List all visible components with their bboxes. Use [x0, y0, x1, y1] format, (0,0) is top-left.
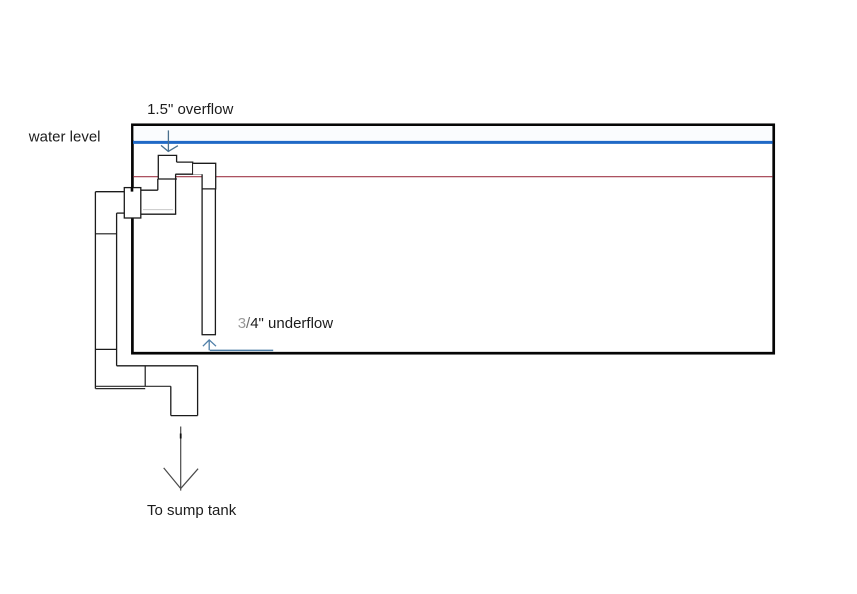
- svg-text:water level: water level: [28, 128, 101, 145]
- tank wall stub inside box: [131, 187, 134, 192]
- overflow intake pipe D1: [158, 155, 176, 179]
- pale tint above water line: [133, 126, 772, 141]
- seam lower: [95, 348, 116, 350]
- bottom long horizontal lower edge: [95, 385, 170, 387]
- horizontal junction line: [175, 173, 202, 175]
- left loop: top horizontal pipe edges: [95, 191, 124, 193]
- red line (middle segment): [176, 176, 202, 178]
- bulkhead union box: [124, 188, 141, 218]
- connector top edge: [141, 189, 158, 191]
- 3/4 underflow pipe: [202, 174, 217, 334]
- elbow visible edges: [193, 163, 216, 189]
- faint inner seam: [143, 209, 173, 211]
- underflow elbow: [193, 163, 216, 189]
- seam upper: [95, 233, 116, 235]
- chamber below intake: [141, 174, 177, 214]
- intake bottom edge: [158, 178, 177, 180]
- left loop inner vertical: [116, 213, 118, 366]
- tank rectangle: [132, 125, 773, 353]
- red line: [133, 176, 158, 178]
- outlet elbow to sump: [171, 366, 198, 416]
- black arrow to sump: [164, 427, 198, 491]
- darker blob on arrow shaft: [180, 434, 182, 439]
- second bottom edge (overlapping piece): [95, 388, 145, 390]
- svg-text:3/4" underflow: 3/4" underflow: [238, 315, 334, 332]
- seam vertical in bottom run: [144, 366, 146, 387]
- blue underflow arrow: [203, 340, 273, 351]
- left loop outer vertical: [94, 192, 96, 389]
- bottom long horizontal upper edge: [117, 365, 198, 367]
- left loop bottom edge to box: [117, 212, 125, 214]
- blue overflow arrow: [161, 130, 178, 151]
- svg-text:1.5" overflow: 1.5" overflow: [147, 101, 233, 118]
- red line (right segment): [216, 176, 773, 178]
- water level blue line: [133, 141, 773, 144]
- svg-text:To sump tank: To sump tank: [147, 502, 237, 519]
- step fitting: [177, 162, 193, 174]
